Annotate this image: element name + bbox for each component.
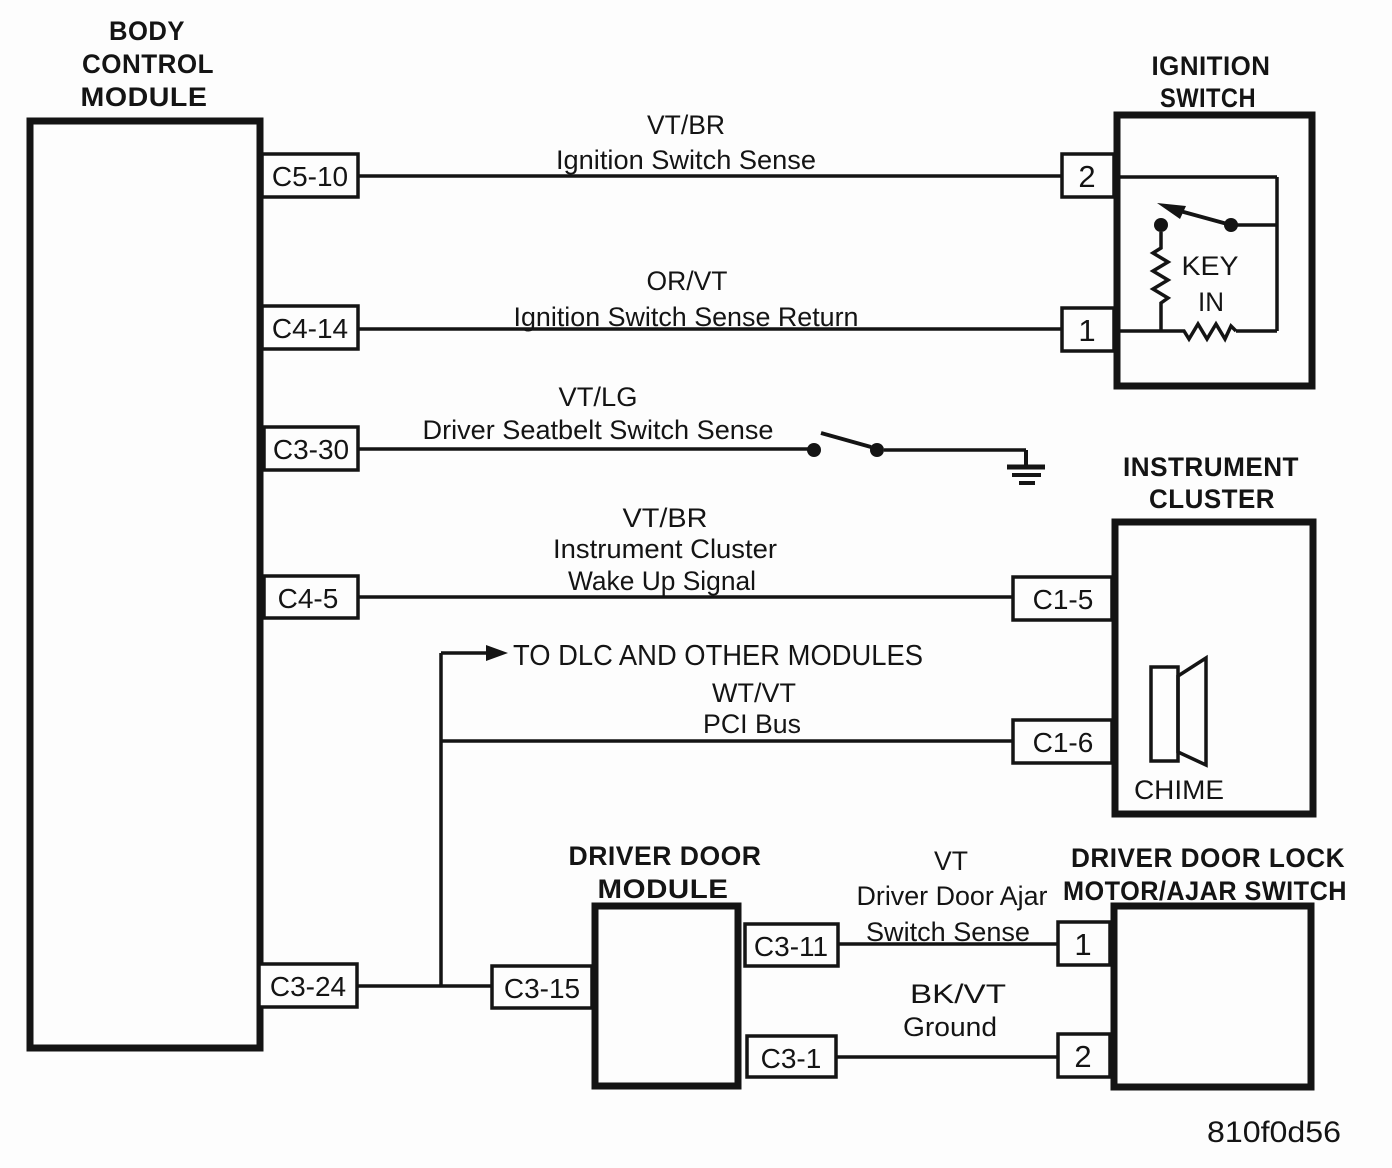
label: OR/VT Ignition Switch Sense Return: [514, 266, 859, 332]
door lock pin 1: [1058, 922, 1110, 965]
wire: C3-24 to C3-15: [357, 984, 494, 988]
connector C3-11: [745, 924, 838, 966]
svg-text:INSTRUMENT: INSTRUMENT: [1123, 452, 1299, 482]
svg-text:1: 1: [1078, 313, 1095, 348]
wire: C5-10 to ignition pin 2: [358, 174, 1062, 178]
svg-text:C3-24: C3-24: [270, 971, 346, 1002]
wire: seatbelt switch to ground: [884, 448, 1026, 452]
wire: C3-1 to door lock pin 2: [836, 1055, 1058, 1059]
svg-text:IN: IN: [1198, 287, 1224, 317]
label: WT/VT PCI Bus: [703, 678, 801, 739]
switch S2: driver seatbelt switch: [807, 433, 884, 457]
chime speaker icon: [1151, 658, 1206, 765]
wire: C4-14 to ignition pin 1: [358, 327, 1062, 331]
wire: C4-5 to C1-5: [358, 595, 1013, 599]
svg-text:VT/BR: VT/BR: [647, 110, 725, 140]
svg-text:C1-6: C1-6: [1033, 727, 1094, 758]
svg-text:C3-11: C3-11: [754, 931, 828, 962]
svg-text:C4-5: C4-5: [278, 583, 339, 614]
svg-text:Driver Seatbelt Switch Sense: Driver Seatbelt Switch Sense: [423, 415, 774, 445]
svg-text:Ignition Switch Sense Return: Ignition Switch Sense Return: [514, 302, 859, 332]
wire: ignition internal right vertical: [1275, 177, 1279, 331]
svg-text:PCI Bus: PCI Bus: [703, 709, 801, 739]
svg-text:VT/LG: VT/LG: [559, 382, 638, 412]
svg-text:BODY: BODY: [109, 16, 185, 46]
ignition pin 1: [1062, 308, 1114, 351]
connector C3-30: [264, 427, 358, 470]
svg-text:Switch Sense: Switch Sense: [866, 917, 1030, 947]
svg-text:Wake Up Signal: Wake Up Signal: [568, 566, 756, 596]
wire: arrow to DLC: [441, 645, 508, 661]
svg-text:2: 2: [1074, 1039, 1091, 1074]
resistor R2: horizontal resistor in bottom wire: [1178, 324, 1236, 339]
svg-text:TO DLC AND OTHER MODULES: TO DLC AND OTHER MODULES: [513, 640, 923, 672]
switch S1: key-in switch right contact dot: [1224, 218, 1238, 232]
svg-text:WT/VT: WT/VT: [712, 678, 796, 708]
svg-text:C1-5: C1-5: [1033, 584, 1094, 615]
switch S1: key-in switch blade with arrowhead: [1157, 203, 1231, 225]
ignition pin 2: [1062, 154, 1114, 197]
svg-text:Driver Door Ajar: Driver Door Ajar: [857, 881, 1048, 911]
svg-text:OR/VT: OR/VT: [647, 266, 728, 296]
wire: C3-11 to door lock pin 1: [838, 942, 1058, 946]
module box U1: Body Control Module: [30, 121, 260, 1048]
label: BK/VT Ground: [903, 979, 1006, 1042]
svg-text:Ignition Switch Sense: Ignition Switch Sense: [556, 145, 816, 175]
svg-text:Instrument Cluster: Instrument Cluster: [553, 534, 777, 564]
switch S1: key-in switch left contact dot: [1154, 218, 1168, 232]
connector C1-5: [1013, 577, 1112, 620]
svg-text:IGNITION: IGNITION: [1152, 51, 1271, 81]
connector C4-14: [262, 306, 358, 349]
label: VT/BR Ignition Switch Sense: [556, 110, 816, 175]
wire: stub from key-in switch right contact: [1231, 223, 1277, 227]
svg-text:VT/BR: VT/BR: [623, 503, 708, 533]
svg-text:KEY: KEY: [1182, 251, 1239, 281]
connector C3-24: [259, 964, 357, 1007]
resistor R1: vertical resistor below left contact: [1153, 232, 1168, 331]
wire: ignition internal top from pin 2: [1114, 175, 1277, 179]
label: KEY IN: [1182, 251, 1239, 317]
ground G1: [1007, 450, 1045, 483]
wire: bottom wire to right vertical: [1236, 329, 1277, 333]
label: IGNITION SWITCH: [1152, 51, 1271, 113]
svg-text:C5-10: C5-10: [272, 161, 348, 192]
label: VT Driver Door Ajar Switch Sense: [857, 846, 1048, 947]
svg-text:SWITCH: SWITCH: [1160, 83, 1256, 113]
svg-text:DRIVER DOOR: DRIVER DOOR: [569, 841, 762, 871]
module box: Driver Door Module: [595, 906, 738, 1086]
label: VT/BR Instrument Cluster Wake Up Signal: [553, 503, 777, 596]
svg-text:CLUSTER: CLUSTER: [1149, 484, 1275, 514]
svg-text:DRIVER DOOR LOCK: DRIVER DOOR LOCK: [1071, 843, 1345, 873]
connector C5-10: [262, 154, 358, 197]
wire: PCI bus vertical branch: [439, 653, 443, 986]
svg-text:1: 1: [1074, 927, 1091, 962]
wire: C3-30 to seatbelt switch: [358, 447, 808, 451]
wire: ignition internal bottom from pin 1: [1114, 329, 1178, 333]
label: DRIVER DOOR MODULE: [569, 841, 762, 904]
svg-text:CONTROL: CONTROL: [82, 49, 214, 79]
svg-text:810f0d56: 810f0d56: [1207, 1116, 1341, 1149]
wire: PCI bus to C1-6: [441, 739, 1013, 743]
svg-text:MODULE: MODULE: [598, 874, 729, 904]
module box: Driver Door Lock Motor/Ajar Switch: [1114, 906, 1311, 1087]
label: INSTRUMENT CLUSTER: [1123, 452, 1299, 514]
door lock pin 2: [1058, 1034, 1110, 1077]
connector C1-6: [1013, 720, 1112, 763]
label: DRIVER DOOR LOCK MOTOR/AJAR SWITCH: [1063, 843, 1347, 906]
svg-text:MODULE: MODULE: [81, 82, 208, 112]
svg-text:Ground: Ground: [903, 1012, 997, 1042]
module box: Instrument Cluster: [1115, 522, 1313, 814]
svg-text:MOTOR/AJAR SWITCH: MOTOR/AJAR SWITCH: [1063, 876, 1347, 906]
svg-text:BK/VT: BK/VT: [910, 979, 1006, 1009]
svg-text:VT: VT: [934, 846, 968, 876]
connector C4-5: [264, 576, 358, 618]
svg-text:C3-15: C3-15: [504, 973, 580, 1004]
connector C3-15: [492, 966, 592, 1008]
label: BODY CONTROL MODULE: [81, 16, 215, 112]
svg-text:CHIME: CHIME: [1134, 775, 1224, 805]
connector C3-1: [747, 1036, 836, 1077]
svg-text:C4-14: C4-14: [272, 313, 348, 344]
label: VT/LG Driver Seatbelt Switch Sense: [423, 382, 774, 445]
svg-text:2: 2: [1078, 159, 1095, 194]
svg-text:C3-30: C3-30: [273, 434, 349, 465]
module box: Ignition Switch: [1117, 115, 1312, 386]
svg-text:C3-1: C3-1: [761, 1043, 822, 1074]
